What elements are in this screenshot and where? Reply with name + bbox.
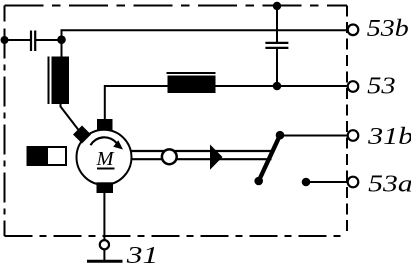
wire: node A up and right to terminal 53b <box>62 30 348 40</box>
junction dot on left border <box>1 36 9 44</box>
motor M body circle <box>77 130 132 185</box>
wire: top border junction down to capacitor C2 <box>276 6 278 43</box>
terminal 53a circle <box>348 177 359 188</box>
junction dot on top border <box>273 2 281 10</box>
choke L1 core line <box>48 57 50 105</box>
wire: choke L1 to motor diamond terminal <box>61 103 83 135</box>
shaft gear circle <box>162 149 177 164</box>
housing outline bottom (dash-dot) <box>5 235 348 237</box>
wire: capacitor C1 to node A <box>36 39 62 41</box>
terminal 31b circle <box>348 130 359 141</box>
motor rotation arrow <box>91 137 124 149</box>
switch pivot contact dot <box>276 131 285 140</box>
wire: left border to capacitor C1 <box>5 39 31 41</box>
svg-text:M: M <box>96 148 116 170</box>
wire: motor top terminal up and right to choke L2 <box>105 86 168 121</box>
wire: ground connector to ground bar <box>103 250 105 261</box>
permanent magnet (half-filled rectangle) <box>27 146 67 166</box>
switch lower contact dot <box>254 177 263 186</box>
svg-text:53a: 53a <box>368 172 411 198</box>
drive shaft (double line) <box>131 151 272 159</box>
choke L2 core line <box>167 72 216 74</box>
shaft cam arrow <box>210 145 223 170</box>
motor bottom terminal pad <box>97 182 114 193</box>
wire: node A down into choke L1 <box>61 40 63 57</box>
wire: choke L2 to terminal 53 <box>216 85 348 87</box>
choke L1 body <box>52 57 70 105</box>
wire: capacitor C2 down to node B <box>276 49 278 86</box>
ground bar 31 <box>87 260 123 263</box>
svg-text:53b: 53b <box>367 16 409 42</box>
wire: switch pivot to terminal 31b <box>280 135 348 137</box>
capacitor C1 <box>31 31 35 52</box>
svg-text:31b: 31b <box>367 124 411 150</box>
switch arm <box>259 135 280 181</box>
housing outline left (dash-dot) <box>4 6 6 237</box>
motor top terminal pad <box>97 119 113 130</box>
wire: contact dot to terminal 53a <box>306 181 348 183</box>
motor diamond terminal <box>73 126 91 144</box>
svg-text:31: 31 <box>125 243 158 269</box>
wire: motor bottom terminal down to ground connector <box>103 193 105 240</box>
choke L2 body <box>168 76 216 94</box>
housing outline top (dash-dot) <box>5 5 348 7</box>
ground connector circle <box>100 240 109 249</box>
housing outline right (dashed) <box>346 6 348 237</box>
junction node A <box>57 35 66 44</box>
svg-text:53: 53 <box>367 74 396 100</box>
contact dot at 53a <box>302 178 311 187</box>
motor label M underline <box>97 168 115 170</box>
terminal 53b circle <box>348 25 359 36</box>
junction node B <box>273 82 282 91</box>
terminal 53 circle <box>348 81 359 92</box>
capacitor C2 <box>265 43 288 48</box>
